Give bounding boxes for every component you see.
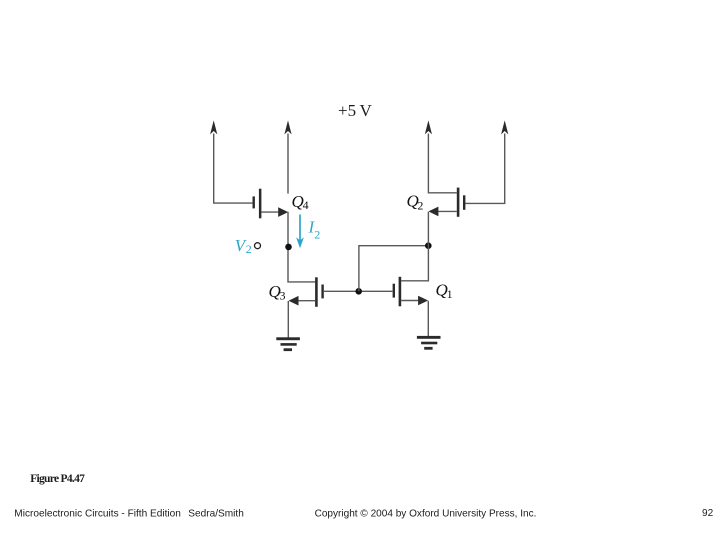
- wire: feedback from gates node up to output node: [359, 246, 428, 292]
- ground (left): [276, 337, 300, 351]
- svg-text:4: 4: [303, 198, 309, 212]
- supply line with arrow (to Q2 drain): [425, 120, 457, 192]
- svg-text:2: 2: [417, 198, 423, 212]
- ground (right): [417, 336, 441, 350]
- wire: Q4 source down through V2 node to Q3 drain: [288, 212, 315, 282]
- svg-text:92: 92: [702, 508, 714, 519]
- transistor Q3: [289, 277, 324, 307]
- wire: Q3 source to ground: [287, 301, 289, 338]
- junction dot (gates node): [355, 288, 362, 295]
- svg-text:3: 3: [280, 288, 286, 302]
- transistor Q1: [393, 277, 429, 307]
- supply line with arrow (to Q4 drain): [284, 120, 291, 193]
- svg-text:+5 V: +5 V: [338, 101, 372, 120]
- terminal V2 (open circle): [255, 243, 261, 249]
- svg-text:2: 2: [246, 242, 252, 256]
- current I2 arrow (cyan): [296, 215, 304, 249]
- supply line with arrow (right outer, to Q2 gate): [465, 120, 508, 203]
- svg-text:2: 2: [314, 228, 320, 242]
- svg-text:Figure P4.47: Figure P4.47: [30, 473, 85, 485]
- wire: Q1 source to ground: [427, 301, 429, 336]
- junction dot (output node): [425, 242, 432, 249]
- supply line with arrow (left outer, to Q4 gate): [210, 120, 252, 203]
- transistor Q2: [428, 188, 465, 217]
- node junction dot (V2 node): [285, 244, 292, 251]
- wire: Q2 source down through output node to Q1 drain: [401, 212, 428, 281]
- svg-text:Copyright © 2004 by Oxford Uni: Copyright © 2004 by Oxford University Pr…: [315, 508, 537, 519]
- svg-text:1: 1: [447, 287, 453, 301]
- transistor Q4: [253, 189, 289, 219]
- svg-text:Sedra/Smith: Sedra/Smith: [188, 508, 244, 519]
- wire: gate line Q3 to Q1: [324, 290, 393, 292]
- svg-text:Microelectronic Circuits - Fif: Microelectronic Circuits - Fifth Edition: [14, 508, 181, 519]
